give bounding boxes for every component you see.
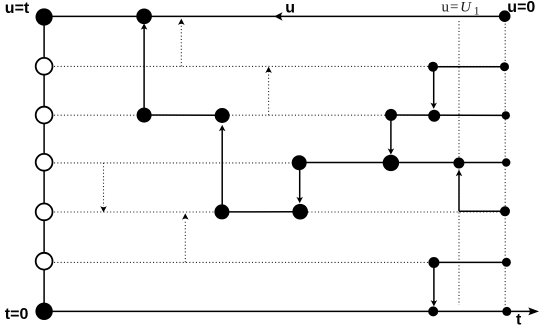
node r6 c7 (428, 257, 439, 268)
solid vertical V1 with up arrow at x=144 (141, 23, 148, 115)
solid vertical V6 with up arrow at x=459 (456, 170, 463, 212)
node r7 u0 on t axis (502, 307, 511, 316)
dotted arrow D4 up at x=185.3 (182, 213, 189, 262)
node axis top filled (36, 8, 53, 25)
node r3 c6 (385, 109, 397, 121)
left axis vertical (43, 16, 45, 311)
svg-text:u=0: u=0 (507, 0, 535, 16)
node r4 u0 (502, 158, 510, 166)
svg-text:t: t (516, 311, 522, 327)
dotted vertical line u=0 (504, 17, 506, 311)
dotted arrow D1 up at x=181 (178, 19, 185, 67)
open circle 3 on axis (36, 154, 53, 171)
bottom axis t (44, 310, 536, 312)
dotted row line 6 (44, 261, 434, 263)
top axis left arrowhead (274, 12, 282, 21)
dotted row line 4 (44, 162, 299, 164)
dotted row line 2 (44, 65, 506, 67)
solid vertical V4 with down arrow at x=390.9 (388, 115, 395, 155)
dotted arrow D3 down at x=103.5 (100, 163, 107, 213)
node r2 c7 (428, 62, 438, 72)
node r1c1 (136, 8, 152, 24)
node r5 u0 (500, 206, 510, 216)
solid vertical V7 with down arrow at x=433.9 (431, 262, 438, 306)
solid segment row3 right (391, 114, 506, 116)
open circle 1 on axis (36, 58, 53, 75)
node axis bottom filled (35, 303, 52, 320)
node r7 c7 on t axis (428, 306, 438, 316)
bottom axis right arrowhead (528, 307, 539, 315)
node r6 u0 (502, 258, 511, 267)
node r4 c6 (383, 155, 399, 171)
node r4 c5 (292, 155, 307, 170)
solid segment row4 (299, 162, 506, 164)
node r4 U1 (453, 158, 464, 169)
node r3 c7 (428, 110, 440, 122)
solid segment row3 left (144, 114, 222, 116)
solid segment row5 right (459, 210, 505, 212)
top axis u (44, 15, 505, 17)
node r3 c1 (137, 108, 152, 123)
dotted row line 5 (44, 211, 505, 213)
svg-text:u: u (285, 0, 295, 17)
node r1 u0 (499, 10, 511, 22)
dotted row line 3 (44, 114, 506, 116)
open circle 4 on axis (36, 204, 53, 221)
solid segment row5 left (222, 211, 300, 213)
node r3 c3 (215, 108, 230, 123)
solid segment row6 (434, 261, 507, 263)
solid vertical V3 with down arrow at x=433.7 (430, 67, 437, 109)
solid vertical V5 with down arrow at x=299.7 (296, 163, 303, 204)
dotted vertical line u=U1 (458, 21, 460, 305)
open circle 2 on axis (36, 107, 53, 124)
dotted arrow D2 up at x=268.6 (265, 67, 272, 116)
svg-text:u=t: u=t (5, 0, 30, 17)
node r2 u0 (500, 62, 509, 71)
node r5 c5 (292, 204, 308, 220)
solid vertical V2 with up arrow at x=222 (219, 125, 226, 212)
node r5 c3 (214, 204, 229, 219)
svg-text:t=0: t=0 (5, 306, 29, 323)
solid segment row2 (434, 66, 505, 68)
node r3 u0 (502, 111, 510, 119)
open circle 5 on axis (36, 253, 53, 270)
